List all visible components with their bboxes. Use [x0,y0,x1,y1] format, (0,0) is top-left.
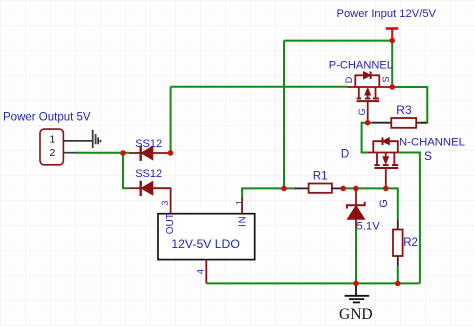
channel plates [358,87,360,98]
junction node P-gate / R3 [365,120,371,126]
wire [391,41,393,87]
body diode of Q2 [383,138,390,145]
svg-text:SS12: SS12 [135,138,162,150]
wire [76,152,129,154]
gate plate [357,100,380,102]
body diode branch [373,141,398,152]
wire [284,40,392,42]
wire [123,153,129,189]
svg-text:R1: R1 [313,170,328,182]
substrate arrow down [385,153,387,157]
svg-text:D: D [341,149,349,161]
LDO module U1 12V-5V LDO [158,198,255,283]
channel plates [376,153,378,166]
body diode of Q1 [364,72,371,79]
earth ground symbol [93,130,101,148]
zener diode ZD1 5.1V [347,190,365,228]
svg-text:Power Input 12V/5V: Power Input 12V/5V [337,8,437,20]
junction node LDO IN [281,186,287,192]
rail D-S [368,152,398,154]
svg-text:1: 1 [50,133,56,145]
junction node VCC [389,38,395,44]
svg-text:R2: R2 [403,237,418,249]
wire [170,87,172,153]
resistor R2 [393,220,403,267]
connector P1 Power Output [40,129,93,165]
resistor R1 [295,184,342,193]
wire [398,153,420,284]
pin 2 of connector [63,152,76,154]
wire [342,188,398,219]
svg-text:1: 1 [234,200,245,205]
svg-text:5.1V: 5.1V [357,221,381,233]
junction node R1 right [340,186,346,192]
wire [362,123,369,153]
junction node GND rail R2 [395,281,401,287]
wire [397,266,399,283]
wire [242,188,284,199]
resistor R3 [373,118,427,128]
svg-text:12V-5V LDO: 12V-5V LDO [171,237,239,251]
gate pin [385,168,387,188]
junction node output diode right [168,150,174,156]
junction node GND rail zener [353,281,359,287]
rail D-S [348,86,393,88]
ground symbol GND [345,283,370,302]
junction node N-gate [383,186,389,192]
wire [171,86,348,88]
pin IN (1) of LDO [241,198,243,214]
P-channel MOSFET Q1 [348,72,393,123]
svg-text:Power Output 5V: Power Output 5V [3,112,91,124]
svg-text:S: S [381,76,391,82]
wire [355,228,357,283]
wire [392,87,427,123]
N-channel MOSFET Q2 [368,137,398,188]
svg-text:3: 3 [160,201,171,206]
gate plate [374,167,398,169]
svg-text:G: G [357,108,368,115]
svg-text:IN: IN [238,215,249,227]
wire [283,41,285,189]
svg-text:2: 2 [50,147,56,159]
svg-text:P-CHANNEL: P-CHANNEL [329,60,393,72]
body diode branch [355,75,379,87]
gate pin [367,101,369,123]
wire [206,282,420,284]
svg-text:OUT: OUT [165,213,176,234]
substrate arrow up [367,94,369,99]
junction node P-source [389,84,395,90]
junction node output diode left [120,150,126,156]
wire [284,187,296,189]
pin 4 of LDO [205,260,207,284]
pin 1 of connector [63,140,92,142]
power flag Power Input 12V/5V [386,29,399,41]
svg-text:SS12: SS12 [135,168,162,180]
svg-text:S: S [424,149,432,163]
junction node zener top [353,186,359,192]
svg-text:G: G [378,199,390,207]
svg-text:4: 4 [195,269,206,274]
diode D2 SS12 (bottom) [129,181,171,214]
svg-text:D: D [344,76,354,83]
diode D1 SS12 (top) [129,146,171,161]
svg-text:N-CHANNEL: N-CHANNEL [399,136,465,148]
wire [368,122,374,124]
svg-text:R3: R3 [396,103,412,117]
svg-text:GND: GND [339,306,373,323]
